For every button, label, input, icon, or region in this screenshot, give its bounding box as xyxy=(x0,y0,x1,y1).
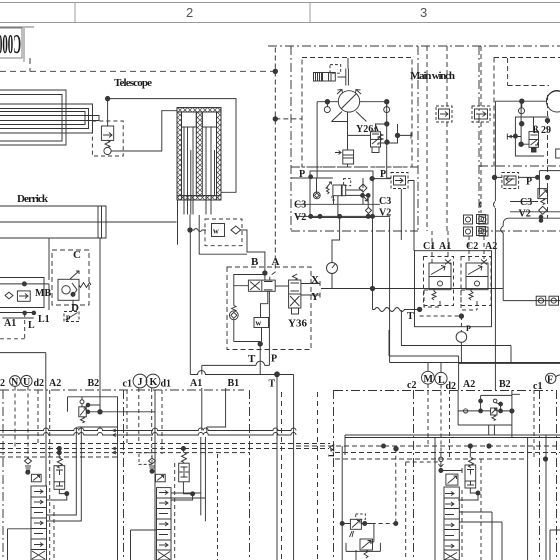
orifice plugs on frame xyxy=(536,296,558,305)
wire right service lines down xyxy=(459,512,502,560)
svg-text:w: w xyxy=(256,319,262,328)
right bank relief valve upper xyxy=(350,514,366,537)
derrick relief pilot arrow xyxy=(70,271,79,279)
node right check xyxy=(439,469,443,473)
Y26 solenoid actuator xyxy=(372,147,379,153)
section1 check valve c1 xyxy=(149,458,156,470)
node gauge junction xyxy=(459,314,463,318)
ruler border top xyxy=(0,3,560,23)
svg-text:A2: A2 xyxy=(463,379,475,390)
hose break on T line xyxy=(373,308,407,312)
left compensator valve xyxy=(54,466,65,490)
bank rails dashed xyxy=(0,444,330,458)
wire balance valve to cylinders xyxy=(111,111,177,151)
telescope boom nested sections xyxy=(0,90,99,145)
wire valve left to rail xyxy=(234,275,265,306)
svg-text:L: L xyxy=(438,375,445,386)
reducing valve small body xyxy=(254,318,269,328)
svg-text:C2: C2 xyxy=(466,241,478,252)
node right relief dots xyxy=(479,399,483,403)
wire P drop xyxy=(268,350,270,366)
right reducing valve xyxy=(446,474,458,485)
svg-text:ß 29: ß 29 xyxy=(533,125,551,136)
derrick counterbalance valve body xyxy=(58,279,79,300)
right main spool xyxy=(444,487,459,560)
hose break symbol xyxy=(190,229,206,232)
svg-text:N: N xyxy=(11,377,19,388)
right module frame xyxy=(515,117,549,156)
wire long pilot dashed lines xyxy=(427,46,481,231)
right control block border xyxy=(479,165,560,167)
derrick piston rod line xyxy=(0,221,177,223)
bank left frame top xyxy=(0,352,46,354)
telescope pilot check valve W body xyxy=(212,224,225,237)
wire A2 service right xyxy=(458,363,460,391)
telescope balance valve body xyxy=(101,126,113,140)
wire pilot check to A2 line xyxy=(408,181,414,251)
node right rail dots xyxy=(382,444,386,448)
wire pilot drops right dashed xyxy=(428,384,450,459)
wire A1 line from telescope module xyxy=(259,342,261,375)
wire dash-dot divider mid xyxy=(123,390,125,560)
svg-text:A2: A2 xyxy=(49,378,61,389)
pilot X tick right xyxy=(507,134,517,140)
pilot X tick xyxy=(410,133,412,139)
right bank rails dashed xyxy=(296,446,560,459)
node A line junction xyxy=(263,271,267,275)
node rail right lower xyxy=(385,140,389,144)
wire pilot drops section1 dashed xyxy=(127,388,162,457)
motor drain port left xyxy=(324,107,330,113)
wire C1 A1 C2 A2 pilot lines dashed xyxy=(432,231,484,263)
wire C module dash-dot xyxy=(72,300,74,311)
svg-text:V2: V2 xyxy=(294,212,306,223)
wire right dashed pilot box xyxy=(406,461,438,463)
LS arrow tick xyxy=(330,445,334,451)
wire A1 B1 drops xyxy=(202,388,226,433)
svg-text:P: P xyxy=(526,177,532,188)
winch hydraulic motor xyxy=(338,91,359,112)
port circle on rail xyxy=(464,409,468,413)
right module dashed box lines xyxy=(508,58,549,86)
orifice plugs right column xyxy=(477,215,486,236)
wire X pilot long line xyxy=(321,288,503,290)
node telescope supply junction top xyxy=(273,69,277,73)
solenoid valve B29 xyxy=(529,132,539,152)
wire V2 drain down xyxy=(390,218,560,363)
Y26 spring xyxy=(378,134,383,140)
telescope check valve diamond xyxy=(231,226,241,234)
right motor drain port xyxy=(519,108,525,114)
node rail left xyxy=(325,100,329,104)
telescope twin cylinders outer shell hatched xyxy=(177,108,221,200)
wire P pilot right with check valve xyxy=(387,177,391,179)
port circle K xyxy=(146,374,160,388)
wire B29 connections xyxy=(517,101,534,144)
wire right module rails xyxy=(510,202,560,221)
pilot transfer valve right dashed box xyxy=(472,106,490,122)
svg-text:D: D xyxy=(71,302,79,314)
right B2 relief module frame xyxy=(458,390,520,435)
wire M L stems xyxy=(428,363,441,373)
node compensator out xyxy=(65,492,69,496)
wire derrick cylinder ports xyxy=(49,238,100,412)
motor arrow left xyxy=(337,90,343,95)
winch brake release cylinder xyxy=(335,150,354,164)
orifice plug symbols column xyxy=(464,215,489,236)
wire right relief connections xyxy=(458,395,512,411)
wire relief connections xyxy=(82,397,155,412)
right bank top frame xyxy=(389,330,560,363)
winch brake spring cylinder xyxy=(313,73,335,82)
spring check on rail xyxy=(232,306,236,312)
telescope subsystem dashed border xyxy=(0,70,275,72)
svg-text:A1: A1 xyxy=(4,318,16,329)
right section check valve xyxy=(439,457,443,461)
section1 main spool xyxy=(157,488,172,560)
svg-text:L1: L1 xyxy=(38,314,50,325)
svg-text:MB: MB xyxy=(35,288,51,299)
wire T dashed to gauge xyxy=(420,315,462,317)
solenoid Y36 actuator xyxy=(292,308,299,314)
right winch motor xyxy=(547,91,560,101)
rail flow arrows xyxy=(113,429,117,454)
svg-text:C3: C3 xyxy=(379,196,391,207)
node right rail xyxy=(520,99,524,103)
wire right dashed drops xyxy=(462,390,534,560)
telescope pilot check valve W dashed enclosure xyxy=(205,219,242,246)
wire right check line xyxy=(441,453,462,474)
svg-text:000Ɔ: 000Ɔ xyxy=(0,29,21,59)
port circle M xyxy=(422,371,435,384)
svg-text:d1: d1 xyxy=(161,379,172,390)
plugged port symbol right xyxy=(481,260,487,265)
winch pilot cartridge valve 1 xyxy=(424,257,454,306)
wire right compensator xyxy=(458,446,478,500)
left B2 relief module frame xyxy=(68,397,118,427)
wire W valve to B line xyxy=(241,230,265,280)
node c2 check xyxy=(26,470,30,474)
pilot port Y line xyxy=(301,293,320,298)
right brake release cylinder partial xyxy=(556,149,560,158)
wire section1 compensator xyxy=(171,449,193,501)
right bank relief valve lower xyxy=(360,539,373,558)
node right edge dots xyxy=(545,118,549,122)
wire motor case drain xyxy=(332,112,348,150)
wire long drain line rod xyxy=(189,232,191,375)
port circle F xyxy=(546,373,556,383)
svg-text:C3: C3 xyxy=(520,197,532,208)
motor skirt xyxy=(332,112,367,122)
winch motor shaft coupling xyxy=(338,58,349,86)
wire T line down xyxy=(277,374,294,560)
node C junction xyxy=(71,292,75,296)
solenoid valve Y26 xyxy=(371,132,381,147)
wire T collector xyxy=(190,371,293,375)
pressure gauge xyxy=(327,263,338,274)
wire derrick module drains dashed xyxy=(0,313,25,339)
svg-text:A1: A1 xyxy=(190,378,202,389)
control block check circle xyxy=(313,192,320,199)
svg-text:M: M xyxy=(424,374,434,385)
wire compensator connections xyxy=(47,449,67,501)
wire B2 service line xyxy=(118,390,156,560)
wire right P line xyxy=(495,171,560,196)
svg-text:Telescope: Telescope xyxy=(114,77,152,89)
node rail bottom junction xyxy=(258,342,262,346)
wire right reliefs xyxy=(342,446,380,560)
wire T down to tank xyxy=(401,310,511,346)
svg-text:w: w xyxy=(213,227,219,236)
derrick cylinder xyxy=(0,206,106,238)
left pressure reducing pilot valve xyxy=(31,474,41,482)
telescope balance valve dashed enclosure xyxy=(92,121,123,156)
svg-text:B1: B1 xyxy=(228,378,240,389)
svg-text:P: P xyxy=(466,324,471,333)
wire misc long verticals xyxy=(460,342,462,362)
section1 reducing valve xyxy=(156,474,166,482)
node Y26 right xyxy=(395,133,399,137)
right module relief valve xyxy=(538,189,548,205)
node right P junction xyxy=(492,175,496,179)
node V2 rail dots xyxy=(309,214,313,218)
svg-text:Y36: Y36 xyxy=(288,318,307,330)
wire A2 divider xyxy=(45,353,47,390)
wire upper P header with jump xyxy=(202,361,270,374)
svg-text:J: J xyxy=(138,377,143,388)
right winch dashed enclosure xyxy=(494,58,560,168)
pilot transfer valve left dashed box xyxy=(436,106,452,122)
wire Y26 connections xyxy=(348,124,412,143)
control block shuttle valve xyxy=(359,184,367,204)
wire rail bottom xyxy=(233,320,235,342)
svg-text:Main winch: Main winch xyxy=(410,70,455,82)
brake pilot dashed box xyxy=(330,65,341,74)
wire pilot dashed net right xyxy=(360,449,396,524)
hose break symbols right xyxy=(480,202,496,208)
svg-text:U: U xyxy=(23,377,30,388)
right compensator spring xyxy=(469,458,474,468)
right pilot module frame xyxy=(501,218,560,300)
telescope pilot module dashed enclosure xyxy=(227,267,311,350)
node cylinder drain junction xyxy=(188,228,192,232)
wire motor rails xyxy=(317,101,387,103)
control block lower diamond xyxy=(366,207,372,213)
winch pilot valves module frame xyxy=(415,251,492,327)
wire pilot drops left section dashed xyxy=(15,387,38,459)
wire T line xyxy=(404,309,420,311)
section1 compensator spring xyxy=(182,453,187,463)
wire pilot branch to winch xyxy=(275,118,302,120)
wire boom junction to cylinder pipe xyxy=(108,99,236,193)
wire T down right xyxy=(434,438,436,560)
wire service lines section1 xyxy=(171,437,205,521)
node B29 junction xyxy=(519,142,523,146)
right B2 relief valve xyxy=(491,399,497,420)
svg-text:T: T xyxy=(248,353,256,365)
svg-text:B2: B2 xyxy=(499,379,511,390)
derrick counterbalance module dashed enclosure xyxy=(52,250,89,305)
node rail dots xyxy=(57,447,61,451)
svg-text:3: 3 xyxy=(420,5,427,20)
svg-text:C: C xyxy=(73,249,81,261)
svg-text:p: p xyxy=(66,313,71,322)
winch control block border xyxy=(291,166,418,168)
svg-text:B: B xyxy=(251,256,259,268)
wire valve to Y36 xyxy=(275,285,288,287)
wire V2 to gauge xyxy=(332,216,340,262)
wire section1 tank elbow xyxy=(131,530,157,560)
winch pilot cartridge valve 2 xyxy=(461,257,491,306)
winch subsystem dash-dot border xyxy=(268,45,560,47)
derrick port block MB xyxy=(0,282,49,310)
node T junction xyxy=(417,307,421,311)
telescope balance valve spring xyxy=(105,140,110,147)
port circle U xyxy=(21,375,32,386)
node right module dots xyxy=(539,215,543,219)
right module check diamond xyxy=(539,206,547,214)
solenoid valve Y36 body xyxy=(289,280,301,308)
svg-text:c1: c1 xyxy=(123,379,132,390)
derrick counterbalance spring xyxy=(79,283,91,288)
control block relief arrow xyxy=(361,195,368,202)
wire junction up to winch block xyxy=(372,216,374,309)
derrick MB module frame xyxy=(0,278,44,308)
wire gauge to Y line xyxy=(331,274,333,289)
check valve circle on rail xyxy=(229,311,238,320)
port circle L xyxy=(435,372,447,384)
svg-text:C3: C3 xyxy=(294,200,306,211)
solenoid Y36 spring top xyxy=(292,274,297,280)
control block wires xyxy=(291,178,368,216)
wire LS dashed line xyxy=(281,392,283,560)
wire cartridge internals xyxy=(424,290,477,310)
svg-text:L: L xyxy=(28,320,35,331)
wire spool tank line xyxy=(8,529,32,560)
right pilot check dashed box xyxy=(502,173,519,189)
left main spool xyxy=(31,486,47,560)
node right compensator xyxy=(476,491,480,495)
derrick module lower frame xyxy=(0,313,36,319)
section1 check dashed box xyxy=(139,453,152,465)
wire B2 service into spool xyxy=(47,427,82,521)
svg-text:V2: V2 xyxy=(379,208,391,219)
svg-text:Derrick: Derrick xyxy=(17,193,49,205)
node rail right xyxy=(385,100,389,104)
node right reliefs xyxy=(340,522,344,526)
pilot port X line xyxy=(301,281,320,286)
winch control block frame xyxy=(310,171,373,218)
svg-text:A1: A1 xyxy=(439,241,451,252)
wire gauge drop xyxy=(460,316,462,332)
wire V2 rail xyxy=(296,215,390,217)
node T collector xyxy=(275,372,280,377)
node Y26 top xyxy=(385,122,389,126)
node c1 check xyxy=(150,469,154,473)
node boom supply junction xyxy=(105,96,109,100)
check valve c2 xyxy=(25,458,32,470)
motor drain port right xyxy=(384,107,390,113)
title block frame xyxy=(0,27,34,62)
port circle edge xyxy=(556,375,560,377)
wire brake line xyxy=(347,164,349,167)
wire C3 rail xyxy=(296,203,380,205)
wire pilot dashed drop xyxy=(317,392,319,560)
section1 compensator valve xyxy=(179,463,190,482)
svg-text:X: X xyxy=(311,274,319,286)
svg-text:Y: Y xyxy=(311,291,319,303)
pressure gauge port xyxy=(456,332,467,343)
wire rod B drain xyxy=(199,215,247,254)
wire boom junction to balance valve xyxy=(107,99,109,126)
svg-text:P: P xyxy=(271,354,277,365)
telescope balance valve check xyxy=(104,147,111,154)
svg-text:F: F xyxy=(547,375,553,386)
wire block to T xyxy=(400,189,402,240)
port circle J xyxy=(133,374,147,388)
wire right service lines xyxy=(528,435,560,560)
right bank rails solid xyxy=(345,435,560,455)
telescope cylinder pistons and rods xyxy=(182,112,217,215)
wire A line from top xyxy=(270,48,276,281)
port circle N xyxy=(10,376,21,387)
left compensator spring xyxy=(57,458,62,468)
svg-text:d2: d2 xyxy=(446,381,457,392)
right compensator valve xyxy=(465,465,476,488)
pressure switch symbol xyxy=(64,312,79,322)
svg-text:B2: B2 xyxy=(88,378,100,389)
bank dash-dot borders xyxy=(0,390,244,560)
winch pump dashed enclosure xyxy=(302,58,412,168)
right winch module dash-dot border xyxy=(478,46,480,231)
node frame dots xyxy=(520,122,524,126)
svg-text:d2: d2 xyxy=(34,378,45,389)
svg-text:2: 2 xyxy=(0,378,5,389)
left B2 relief valve xyxy=(79,400,87,423)
motor arrow right xyxy=(356,90,362,95)
svg-text:T: T xyxy=(269,379,276,390)
svg-text:Ls: Ls xyxy=(327,449,336,457)
wire right motor rails xyxy=(495,101,546,201)
node X pilot junction xyxy=(370,286,374,290)
svg-text:c2: c2 xyxy=(407,380,416,391)
node section1 compensator xyxy=(191,492,195,496)
svg-text:K: K xyxy=(150,377,158,388)
control block relief valve xyxy=(326,179,351,200)
bank rails solid with jump bumps xyxy=(0,428,296,431)
telescope directional valve xyxy=(248,280,275,291)
wire valve to reducing valve xyxy=(261,291,270,349)
plugged port symbol left xyxy=(445,260,451,265)
pilot check valve dashed box xyxy=(391,173,408,189)
node relief dots xyxy=(86,403,90,407)
wire right edge dashed xyxy=(547,95,549,218)
node control block dots xyxy=(309,175,313,179)
svg-text:2: 2 xyxy=(186,5,193,20)
wire cylinder rods bottom manifold xyxy=(178,200,191,245)
svg-text:C1: C1 xyxy=(423,241,435,252)
svg-text:T: T xyxy=(407,311,414,322)
